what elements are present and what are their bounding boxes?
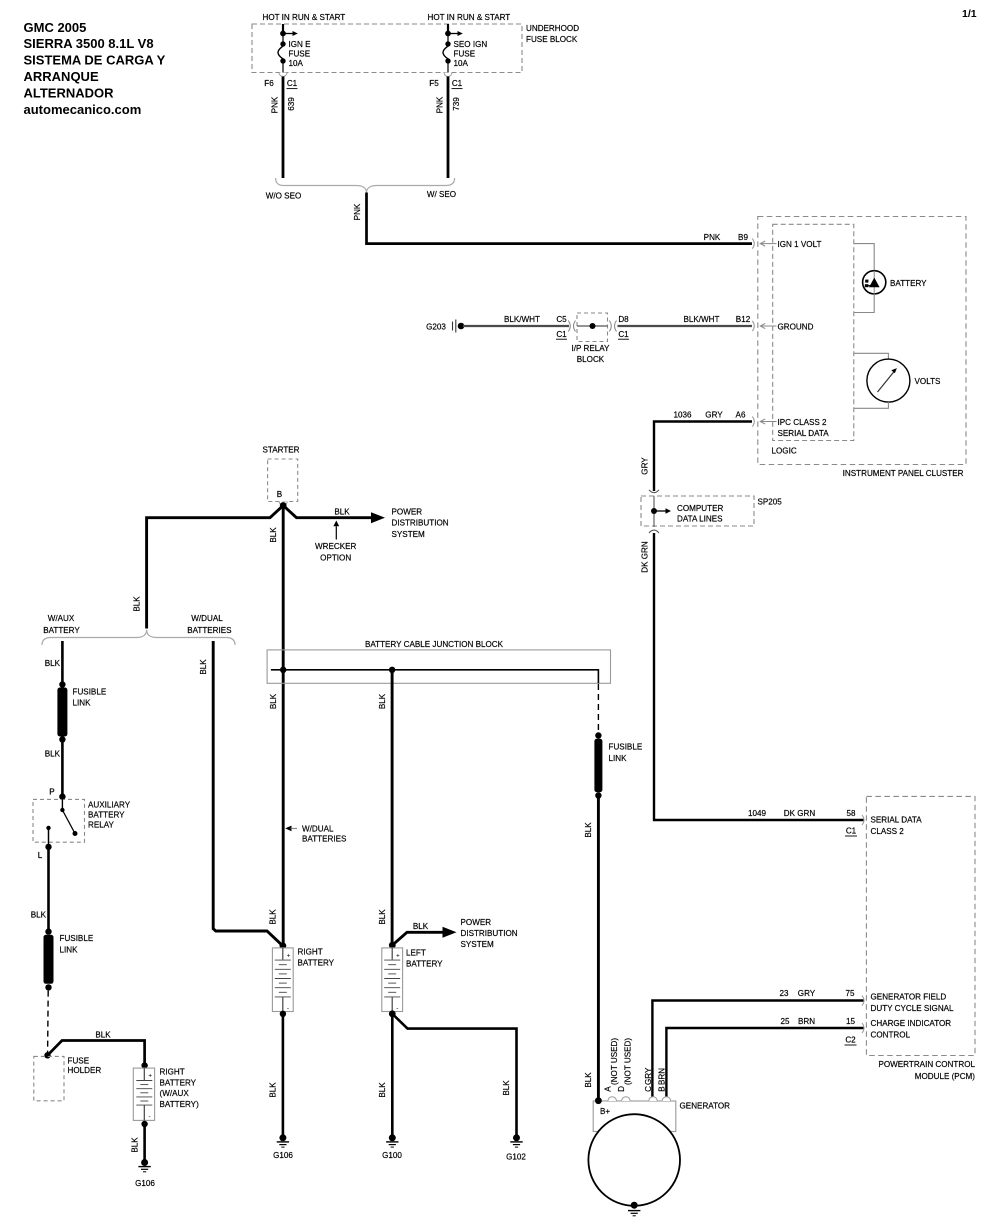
svg-text:MODULE (PCM): MODULE (PCM) [915,1072,976,1081]
svg-text:C: C [644,1086,653,1092]
svg-text:G106: G106 [135,1179,155,1188]
svg-text:FUSE: FUSE [454,50,476,59]
ground G106 (w/aux) [135,1159,155,1188]
svg-text:BATTERY: BATTERY [43,626,80,635]
wire starter to power distribution system [283,506,449,540]
battery LEFT BATTERY [382,948,443,1012]
wire BLK FL3 to generator B+ [584,796,598,1101]
svg-text:DISTRIBUTION: DISTRIBUTION [392,519,449,528]
svg-text:POWERTRAIN CONTROL: POWERTRAIN CONTROL [878,1060,975,1069]
svg-text:10A: 10A [454,59,469,68]
wire volts gauge to logic [854,402,889,408]
svg-text:BLK/WHT: BLK/WHT [504,315,540,324]
ground G100 [382,1134,402,1160]
svg-text:RIGHT: RIGHT [298,948,323,957]
wire 25 BRN to PCM 15/C2 [666,1017,864,1097]
pin bump C (generator) [649,1097,658,1101]
svg-text:10A: 10A [289,59,304,68]
svg-text:BATTERY CABLE JUNCTION BLOCK: BATTERY CABLE JUNCTION BLOCK [365,640,504,649]
wire W/DUAL batteries branch to right battery [213,641,283,946]
wire BLK fuse holder to right battery (w/aux) [48,1030,148,1068]
svg-text:GRY: GRY [644,1067,653,1085]
svg-text:C1: C1 [846,827,857,836]
ground G203 [426,320,464,333]
svg-text:+: + [396,953,400,960]
svg-text:1049: 1049 [748,809,767,818]
node right battery + terminal [280,942,287,949]
starter [262,445,299,501]
svg-text:F5: F5 [429,79,439,88]
svg-text:D: D [617,1086,626,1092]
svg-text:C2: C2 [845,1036,856,1045]
instrument panel cluster box [758,217,966,479]
ground (generator case) [628,1202,640,1216]
svg-text:INSTRUMENT PANEL CLUSTER: INSTRUMENT PANEL CLUSTER [843,469,964,478]
pin F5 / connector C1 [429,73,462,89]
battery RIGHT BATTERY (W/AUX BATTERY) [133,1068,199,1121]
svg-text:BLK: BLK [133,596,142,612]
pin bump B (generator) [662,1097,671,1101]
svg-text:BLK: BLK [95,1030,111,1039]
svg-text:PNK: PNK [704,233,721,242]
battery RIGHT BATTERY [272,948,334,1013]
node L [45,844,51,850]
svg-text:W/DUAL: W/DUAL [302,825,334,834]
wire BLK/WHT G203 to C5 [463,315,576,339]
node left battery - terminal [389,1010,396,1017]
volts gauge [867,359,941,402]
svg-text:G106: G106 [273,1151,293,1160]
svg-text:C5: C5 [556,315,567,324]
pin B terminal bump (starter) [279,502,287,506]
svg-text:HOT IN RUN & START: HOT IN RUN & START [263,13,346,22]
svg-text:ARRANQUE: ARRANQUE [24,69,99,84]
wire BLK right battery to G106 [269,1011,287,1135]
svg-text:-: - [396,1005,398,1012]
pin bump A (generator) [608,1097,617,1101]
svg-text:DK GRN: DK GRN [641,541,650,573]
svg-text:BATTERIES: BATTERIES [187,626,232,635]
svg-text:SYSTEM: SYSTEM [461,940,495,949]
fuse IGN E FUSE 10A (F6) [278,24,311,73]
svg-text:639: 639 [287,97,296,111]
svg-text:DATA LINES: DATA LINES [677,514,723,523]
svg-text:BLK: BLK [584,822,593,838]
svg-text:LOGIC: LOGIC [772,446,797,455]
svg-text:BLK: BLK [378,1082,387,1098]
svg-text:PNK: PNK [353,203,362,220]
svg-text:SIERRA 3500 8.1L V8: SIERRA 3500 8.1L V8 [24,36,154,51]
svg-text:SEO IGN: SEO IGN [454,40,488,49]
wire 1049 DK GRN to PCM 58/C1 [641,533,865,836]
svg-text:C1: C1 [452,79,463,88]
svg-text:FUSIBLE: FUSIBLE [60,934,94,943]
svg-text:BLK: BLK [269,1082,278,1098]
svg-text:B+: B+ [600,1107,610,1116]
svg-text:FUSIBLE: FUSIBLE [609,743,643,752]
svg-text:BLK: BLK [502,1080,511,1096]
wire BLK w/aux battery to G106 [131,1121,148,1160]
svg-text:BRN: BRN [657,1068,666,1085]
wire 1036 GRY to IPC A6 [641,411,755,492]
svg-text:IPC CLASS 2: IPC CLASS 2 [778,418,828,427]
svg-text:G102: G102 [506,1153,526,1162]
svg-text:75: 75 [845,989,855,998]
svg-text:(W/AUX: (W/AUX [160,1089,190,1098]
svg-text:739: 739 [452,97,461,111]
svg-text:+: + [287,953,291,960]
svg-text:L: L [38,851,43,860]
wire left battery to power distribution system [392,918,517,949]
svg-text:58: 58 [846,809,856,818]
svg-text:BLK: BLK [45,750,61,759]
wire 23 GRY to PCM 75 [652,989,864,1097]
svg-text:25: 25 [780,1017,790,1026]
wire dashed FL2 to fuse holder [47,991,50,1053]
svg-text:PNK: PNK [436,96,445,113]
svg-text:HOLDER: HOLDER [68,1066,102,1075]
wire BLK w/aux battery branch [45,641,63,685]
svg-text:G100: G100 [382,1151,402,1160]
svg-text:WRECKER: WRECKER [315,542,357,551]
svg-text:1/1: 1/1 [962,8,977,20]
svg-text:BLK: BLK [269,693,278,709]
svg-text:C1: C1 [556,330,567,339]
wire battery indicator to logic [854,294,874,313]
svg-text:A6: A6 [736,411,746,420]
svg-text:LINK: LINK [609,754,628,763]
svg-text:DISTRIBUTION: DISTRIBUTION [461,929,518,938]
wire junction block to left battery [378,670,392,945]
powertrain control module box [866,796,975,1081]
svg-text:(NOT USED): (NOT USED) [623,1038,632,1085]
fusible link FL1 (w/aux) [57,681,106,742]
svg-text:LINK: LINK [60,945,79,954]
svg-text:IGN E: IGN E [289,40,312,49]
wire BLK FL1 to relay P [45,740,63,797]
fusible link FL2 [44,928,94,990]
svg-text:C1: C1 [618,330,629,339]
svg-text:automecanico.com: automecanico.com [24,102,142,117]
wire to volts gauge [854,353,889,359]
svg-text:I/P RELAY: I/P RELAY [572,344,611,353]
svg-text:GMC 2005: GMC 2005 [24,20,87,35]
pin B9 IGN 1 VOLT [760,240,821,249]
pin A6 IPC CLASS 2 SERIAL DATA [760,418,829,438]
logic block (IPC) [772,224,854,455]
svg-text:SERIAL DATA: SERIAL DATA [871,816,923,825]
svg-text:GRY: GRY [641,457,650,475]
svg-text:+: + [148,1073,152,1080]
pin F6 / connector C1 [264,73,297,89]
svg-text:CONTROL: CONTROL [871,1031,911,1040]
svg-text:POWER: POWER [392,508,423,517]
svg-text:D8: D8 [618,315,629,324]
svg-text:BATTERY): BATTERY) [160,1100,200,1109]
svg-text:GENERATOR: GENERATOR [680,1102,731,1111]
splice SP205 computer data lines [641,490,782,533]
svg-text:SISTEMA DE CARGA Y: SISTEMA DE CARGA Y [24,53,166,68]
svg-text:SYSTEM: SYSTEM [392,530,426,539]
wire PNK to IPC B9 [353,193,754,249]
svg-text:B: B [277,490,282,499]
svg-text:BLK: BLK [269,527,278,543]
wire PNK 739 (F5 down) [436,77,462,179]
svg-text:UNDERHOOD: UNDERHOOD [526,24,579,33]
battery telltale indicator [863,271,928,294]
wire main battery cable (starter to right battery) [269,506,284,946]
node starter B junction [280,502,287,509]
fuse holder [34,1052,102,1101]
battery cable junction block [267,640,610,683]
svg-text:IGN 1 VOLT: IGN 1 VOLT [778,240,822,249]
wire BLK/WHT D8 to B12 [609,315,754,339]
svg-text:A: A [603,1086,612,1092]
svg-text:RELAY: RELAY [88,820,115,829]
svg-text:COMPUTER: COMPUTER [677,504,723,513]
svg-text:AUXILIARY: AUXILIARY [88,801,131,810]
svg-text:FUSE BLOCK: FUSE BLOCK [526,35,578,44]
node junction dot (main cable) [280,667,286,673]
underhood fuse block box [252,24,579,73]
wire starter left branch to brace [133,506,284,629]
svg-text:GRY: GRY [705,411,723,420]
svg-text:P: P [49,788,54,797]
fusible link FL3 (generator feed) [594,732,642,798]
svg-text:SP205: SP205 [758,498,783,507]
svg-text:BATTERY: BATTERY [406,960,443,969]
svg-text:1036: 1036 [673,411,692,420]
svg-text:RIGHT: RIGHT [160,1068,185,1077]
svg-text:W/O SEO: W/O SEO [266,191,302,200]
svg-text:23: 23 [779,989,789,998]
svg-text:BLK: BLK [45,659,61,668]
svg-text:-: - [149,1114,151,1121]
svg-text:BLK: BLK [584,1072,593,1088]
wire BLK left battery to G100 [378,1014,393,1135]
svg-text:BLK: BLK [31,910,47,919]
svg-text:BLK: BLK [413,922,429,931]
svg-text:-: - [287,1005,289,1012]
svg-text:BLK: BLK [334,508,350,517]
svg-text:CHARGE INDICATOR: CHARGE INDICATOR [871,1019,952,1028]
wire to battery indicator [854,244,874,271]
svg-text:BATTERY: BATTERY [890,279,927,288]
svg-text:VOLTS: VOLTS [915,377,942,386]
I/P relay block [572,313,611,364]
svg-text:LEFT: LEFT [406,949,426,958]
pin bump D (generator) [622,1097,631,1101]
auxiliary battery relay [33,797,131,847]
svg-text:W/AUX: W/AUX [48,614,75,623]
svg-text:GRY: GRY [798,989,816,998]
svg-text:B: B [658,1086,667,1091]
svg-text:W/DUAL: W/DUAL [191,614,223,623]
svg-text:BLK: BLK [269,909,278,925]
svg-text:POWER: POWER [461,918,492,927]
svg-text:DUTY CYCLE SIGNAL: DUTY CYCLE SIGNAL [871,1004,955,1013]
svg-text:BATTERIES: BATTERIES [302,835,347,844]
svg-text:BLOCK: BLOCK [577,355,605,364]
ground G102 [506,1134,526,1161]
svg-text:BATTERY: BATTERY [298,959,335,968]
svg-text:BLK/WHT: BLK/WHT [684,315,720,324]
ground G106 (right battery) [273,1134,293,1160]
svg-text:G203: G203 [426,322,446,331]
svg-text:FUSE: FUSE [68,1057,90,1066]
svg-text:HOT IN RUN & START: HOT IN RUN & START [428,13,511,22]
svg-text:(NOT USED): (NOT USED) [610,1038,619,1085]
svg-text:BRN: BRN [798,1017,815,1026]
pin B12 GROUND [760,323,813,332]
svg-text:DK GRN: DK GRN [784,809,816,818]
svg-text:BLK: BLK [131,1137,140,1153]
wire BLK left battery to G102 [392,1014,516,1135]
generator U1 [588,1101,730,1206]
node junction dot (left battery) [389,667,395,673]
svg-text:BLK: BLK [378,693,387,709]
svg-text:W/ SEO: W/ SEO [427,190,456,199]
svg-text:BLK: BLK [378,909,387,925]
svg-text:B12: B12 [736,315,751,324]
svg-text:CLASS 2: CLASS 2 [871,827,905,836]
brace merging W/O SEO and W/ SEO wires [266,178,456,200]
svg-text:PNK: PNK [271,96,280,113]
svg-text:OPTION: OPTION [320,553,351,562]
wire BLK relay L to FL2 [31,847,49,932]
svg-text:C1: C1 [287,79,298,88]
svg-text:FUSE: FUSE [289,50,311,59]
wire PNK 639 (F6 down) [271,77,297,179]
svg-text:GROUND: GROUND [778,323,814,332]
svg-text:B9: B9 [738,233,748,242]
node left battery + terminal [389,942,396,949]
title block [24,20,166,117]
svg-text:F6: F6 [264,79,274,88]
svg-text:BATTERY: BATTERY [160,1079,197,1088]
svg-text:GENERATOR FIELD: GENERATOR FIELD [871,993,947,1002]
wire dashed junction block to fusible link FL3 [597,684,599,732]
svg-text:FUSIBLE: FUSIBLE [73,688,107,697]
label arrow W/DUAL BATTERIES (main cable) [285,825,347,844]
fuse SEO IGN FUSE 10A (F5) [443,24,487,73]
svg-text:15: 15 [846,1017,856,1026]
svg-text:STARTER: STARTER [262,445,299,454]
brace W/AUX BATTERY / W/DUAL BATTERIES split [42,614,235,645]
svg-text:SERIAL DATA: SERIAL DATA [778,429,830,438]
wrecker option tap [315,521,357,563]
svg-text:BLK: BLK [199,659,208,675]
node generator B+ terminal [595,1097,602,1104]
svg-text:LINK: LINK [73,698,92,707]
svg-text:ALTERNADOR: ALTERNADOR [24,85,115,100]
svg-text:BATTERY: BATTERY [88,810,125,819]
